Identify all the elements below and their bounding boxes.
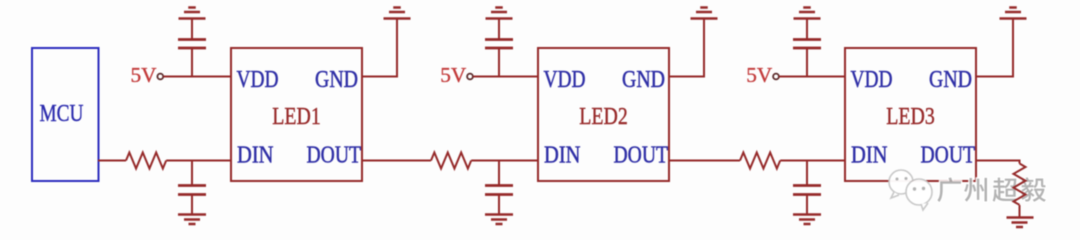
LED chip U2 (LED2) xyxy=(538,48,669,181)
capacitor C4 (DIN filter) xyxy=(178,161,206,215)
svg-text:DOUT: DOUT xyxy=(307,142,362,169)
MCU box U0 xyxy=(32,48,99,181)
wire resistor to DIN pin (stage 1) xyxy=(166,160,231,162)
ground (below C4) xyxy=(178,215,206,225)
watermark text xyxy=(937,177,1046,202)
series resistor R1 xyxy=(126,153,166,169)
capacitor C6 (DIN filter) xyxy=(793,161,821,215)
ground (termination) xyxy=(1007,218,1034,228)
wire GND pin to ground (stage 2) xyxy=(669,19,704,77)
decoupling capacitor C1 (VDD) xyxy=(178,19,206,77)
decoupling capacitor C2 (VDD) xyxy=(485,19,513,77)
wire resistor to DIN pin (stage 2) xyxy=(471,160,538,162)
wire 5V rail to VDD pin (stage 1) xyxy=(163,76,231,78)
svg-text:DOUT: DOUT xyxy=(614,142,669,169)
svg-text:DIN: DIN xyxy=(851,142,888,169)
ground (below C6) xyxy=(793,215,821,225)
wire DOUT of LED3 to termination resistor xyxy=(976,161,1020,164)
svg-text:LED3: LED3 xyxy=(886,103,935,130)
svg-text:VDD: VDD xyxy=(544,66,586,93)
svg-text:5V: 5V xyxy=(746,63,772,87)
ground (GND net, stage 1) xyxy=(384,8,411,19)
series resistor R2 xyxy=(431,153,471,169)
watermark logo (chat bubbles) xyxy=(889,170,932,210)
power flag 5V (stage 3) xyxy=(746,63,779,87)
svg-text:VDD: VDD xyxy=(237,66,279,93)
termination resistor R4 (vertical) xyxy=(1014,164,1026,205)
svg-text:LED2: LED2 xyxy=(579,103,628,130)
svg-text:DOUT: DOUT xyxy=(921,142,976,169)
svg-text:MCU: MCU xyxy=(40,100,84,127)
wire GND pin to ground (stage 1) xyxy=(362,19,397,77)
svg-text:VDD: VDD xyxy=(851,66,893,93)
svg-text:GND: GND xyxy=(315,66,358,93)
ground (above C1) xyxy=(179,8,206,19)
ground (above C3) xyxy=(794,8,821,19)
capacitor C5 (DIN filter) xyxy=(485,161,513,215)
svg-text:GND: GND xyxy=(622,66,665,93)
power flag 5V (stage 2) xyxy=(440,63,473,87)
ground (GND net, stage 3) xyxy=(1000,8,1027,19)
svg-text:5V: 5V xyxy=(131,63,157,87)
svg-text:GND: GND xyxy=(929,66,972,93)
svg-text:DIN: DIN xyxy=(544,142,581,169)
wire 5V rail to VDD pin (stage 2) xyxy=(473,76,538,78)
ground (below C5) xyxy=(485,215,513,225)
wire data into DIN (stage 3) xyxy=(669,160,740,162)
wire data into DIN (stage 1) xyxy=(98,160,126,162)
svg-text:DIN: DIN xyxy=(237,142,274,169)
wire termination resistor to ground xyxy=(1019,205,1021,217)
wire resistor to DIN pin (stage 3) xyxy=(780,160,845,162)
svg-text:LED1: LED1 xyxy=(272,103,321,130)
wire 5V rail to VDD pin (stage 3) xyxy=(779,76,845,78)
ground (GND net, stage 2) xyxy=(691,8,718,19)
series resistor R3 xyxy=(740,153,780,169)
wire data into DIN (stage 2) xyxy=(362,160,431,162)
svg-text:5V: 5V xyxy=(440,63,466,87)
LED chip U1 (LED1) xyxy=(231,48,362,181)
power flag 5V (stage 1) xyxy=(131,63,164,87)
ground (above C2) xyxy=(486,8,513,19)
LED chip U3 (LED3) xyxy=(845,48,976,181)
wire GND pin to ground (stage 3) xyxy=(976,19,1013,77)
decoupling capacitor C3 (VDD) xyxy=(793,19,821,77)
